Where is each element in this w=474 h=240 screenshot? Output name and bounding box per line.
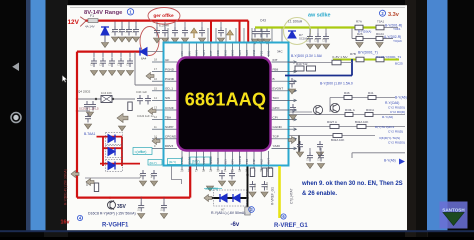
- svg-text:B-Y(D00 (1.8V 1.5A.0: B-Y(D00 (1.8V 1.5A.0: [320, 82, 353, 86]
- connector arrow AR7: [86, 179, 94, 186]
- wire 1.8V navy rail: [285, 59, 352, 76]
- capacitor C32: [85, 113, 91, 123]
- wire gray feedback loop: [135, 52, 163, 85]
- pin feed wire: [251, 28, 253, 42]
- wire left vertical 12V branch: [76, 52, 78, 198]
- pin top 7 GND: [224, 44, 226, 58]
- svg-text:SUPP: SUPP: [165, 125, 173, 129]
- ground G4261: [257, 39, 264, 44]
- capacitor C22: [109, 58, 115, 68]
- svg-text:C4U2 1uF 1u: C4U2 1uF 1u: [137, 114, 154, 118]
- pin left CPGND: [165, 138, 178, 140]
- svg-text:GGND: GGND: [273, 125, 283, 129]
- junction: [76, 110, 78, 112]
- svg-text:VIN: VIN: [180, 51, 184, 56]
- capacitor C4K2: [145, 95, 151, 105]
- resistor R14: [94, 183, 98, 192]
- svg-text:GF: GF: [165, 58, 169, 62]
- wire drop to second rail: [351, 29, 353, 39]
- svg-text:-6v: -6v: [231, 222, 240, 228]
- pin feed wire: [215, 28, 217, 42]
- svg-text:BC25: BC25: [395, 62, 403, 66]
- connector arrow AR6: [71, 171, 79, 178]
- svg-text:INT: INT: [273, 58, 278, 62]
- ground G21: [99, 71, 106, 76]
- connector arrow right mid: [289, 137, 296, 144]
- svg-text:R4L4D: R4L4D: [265, 182, 269, 190]
- pin top 5 BST: [210, 44, 212, 58]
- svg-text:C7(L)4TA7: C7(L)4TA7: [290, 188, 294, 204]
- svg-text:COUF: COUF: [165, 106, 174, 110]
- junction: [163, 196, 165, 198]
- svg-text:R30 A: R30 A: [366, 108, 374, 112]
- pin top 11 VIN2: [253, 44, 255, 58]
- node marker 6 (circled number): [281, 214, 286, 219]
- resistor R41: [368, 96, 376, 100]
- pin left GD_1: [165, 90, 178, 92]
- wire EN loop: [352, 153, 405, 158]
- resistor R327: [330, 125, 339, 129]
- svg-text:R-Y(D01-P) (15V 30mA): R-Y(D01-P) (15V 30mA): [64, 169, 68, 205]
- capacitor C30: [84, 101, 90, 111]
- resistor R26: [356, 36, 363, 40]
- ground G50: [306, 44, 313, 49]
- svg-text:VINN: VINN: [202, 157, 206, 164]
- node marker 1 (circled number): [127, 9, 133, 15]
- pin feed wire: [235, 28, 237, 42]
- svg-text:YA30: YA30: [273, 144, 281, 148]
- pin right YA30: [272, 147, 296, 149]
- wire right row GPO: [289, 114, 406, 116]
- pin bottom 3 BSTT: [195, 151, 197, 165]
- pin bottom 10 FB2: [246, 151, 248, 165]
- wire feed to pin area 1: [210, 21, 212, 42]
- capacitor C4255: [252, 28, 258, 38]
- node marker 3 (circled number): [249, 207, 255, 213]
- pin left SW: [165, 99, 178, 101]
- connector arrow AR8: [204, 195, 212, 202]
- pin feed wire: [207, 28, 209, 42]
- svg-text:CY2 R0(D5): CY2 R0(D5): [388, 140, 405, 144]
- svg-text:6A4: 6A4: [141, 57, 147, 61]
- capacitor C11: [119, 26, 125, 36]
- junction: [112, 98, 114, 100]
- ground G22: [108, 71, 115, 76]
- ground G81: [249, 192, 256, 197]
- pin left PGND: [165, 80, 178, 82]
- ground G34: [198, 38, 205, 43]
- wire pump ladder vertical B: [121, 137, 123, 166]
- svg-text:RC1B-Y(D001_T1: RC1B-Y(D001_T1: [376, 55, 401, 59]
- svg-text:SANTOSH: SANTOSH: [442, 208, 465, 213]
- mouse cursor: [62, 75, 67, 82]
- svg-text:C4u: C4u: [307, 156, 310, 161]
- svg-text:TGP: TGP: [273, 135, 279, 139]
- svg-text:CY2 R0(D): CY2 R0(D): [390, 110, 405, 114]
- capacitor C30: [154, 27, 160, 37]
- pin left GF: [165, 61, 178, 63]
- watermark logo square: [440, 202, 468, 229]
- capacitor C21: [100, 58, 106, 68]
- svg-text:B/Y(D001_T): B/Y(D001_T): [358, 50, 378, 54]
- wire D4 to pin: [147, 51, 163, 53]
- resistor R12: [376, 57, 384, 62]
- svg-text:3.3v: 3.3v: [388, 12, 400, 18]
- wire third rail 1.8V: [333, 59, 399, 61]
- capacitor C24: [289, 78, 295, 88]
- diode D21: [220, 194, 227, 202]
- right side dark zone: [405, 0, 428, 237]
- pin top 1 VIN: [181, 44, 183, 58]
- resistor R7B: [356, 57, 364, 62]
- svg-text:& 26 enable.: & 26 enable.: [302, 191, 337, 197]
- pin left DRV3: [165, 147, 178, 149]
- svg-text:8V-14V Range: 8V-14V Range: [84, 10, 123, 16]
- wire second horizontal branch: [77, 50, 146, 52]
- svg-text:CY2 R0(D): CY2 R0(D): [388, 129, 403, 133]
- svg-text:b_2B4R: b_2B4R: [159, 24, 169, 28]
- svg-text:L1 100uH: L1 100uH: [288, 20, 303, 24]
- svg-text:SW1: SW1: [202, 49, 206, 56]
- ground G4267: [263, 39, 270, 44]
- svg-text:TSP: TSP: [252, 158, 256, 164]
- capacitor C71: [161, 202, 167, 212]
- ground G23: [117, 71, 124, 76]
- pin bottom 8 CPI: [231, 151, 233, 165]
- pin right TGP: [272, 138, 296, 140]
- ground G60: [139, 181, 146, 186]
- svg-text:R7B: R7B: [350, 52, 356, 56]
- pin bottom 6 SW2: [217, 151, 219, 165]
- ground G46: [316, 152, 323, 157]
- page frame line: [70, 7, 405, 9]
- capacitor C90: [219, 170, 225, 180]
- transistor Q2: [330, 103, 339, 112]
- ferrite bead B4T: [332, 60, 341, 65]
- connector arrow AR9: [117, 114, 128, 123]
- svg-text:CPI: CPI: [231, 159, 235, 164]
- ground G71: [160, 214, 167, 219]
- pin right GGND: [272, 128, 296, 130]
- pin feed wire: [225, 28, 227, 42]
- svg-text:FB1: FB1: [259, 50, 263, 56]
- svg-text:when 9. ok then 30 no. EN, The: when 9. ok then 30 no. EN, Then 2S: [301, 181, 403, 187]
- pin left COUF: [165, 109, 178, 111]
- pin feed wire: [281, 28, 283, 42]
- pin bottom 1 PFAIL: [181, 151, 183, 165]
- svg-text:VL2: VL2: [259, 159, 263, 164]
- capacitor C60: [140, 170, 146, 180]
- capacitor C33: [182, 27, 188, 37]
- diode D12: [108, 162, 115, 170]
- svg-text:B-Y(A6): B-Y(A6): [395, 96, 407, 100]
- svg-text:TBA: TBA: [165, 115, 172, 119]
- pin bottom 12 VL2: [260, 151, 262, 165]
- transistor Q5 35V node: [108, 201, 116, 209]
- svg-text:-GD(P9): -GD(P9): [205, 187, 218, 191]
- wire right row 1: [289, 62, 353, 64]
- svg-text:R-Y(CA6): R-Y(CA6): [385, 101, 399, 105]
- IC U1 6861AAQ body: [178, 58, 271, 151]
- resistor R23: [245, 207, 250, 215]
- capacitor C46: [317, 141, 323, 151]
- connector arrow AR5: [152, 138, 160, 145]
- svg-text:R46: R46: [344, 91, 350, 95]
- resistor R40: [295, 66, 304, 71]
- svg-text:aw sdlke: aw sdlke: [308, 13, 330, 19]
- ground G32: [84, 124, 91, 129]
- wire DLY pin loop: [172, 167, 182, 185]
- svg-text:C3L: C3L: [315, 37, 318, 42]
- left blue stripe: [26, 0, 31, 231]
- ground G82: [261, 192, 268, 197]
- resistor R32B: [333, 134, 342, 138]
- svg-text:B32A 10K: B32A 10K: [331, 138, 344, 142]
- svg-text:T5A1: T5A1: [377, 20, 385, 24]
- svg-text:R-Y(A5.L) (-6V 50mA): R-Y(A5.L) (-6V 50mA): [211, 211, 245, 215]
- capacitor C45: [297, 141, 303, 151]
- pin feed wire: [243, 28, 245, 42]
- IC boundary box U1: [164, 43, 289, 166]
- dashed box pump stage 1: [106, 133, 123, 145]
- svg-text:D(Y)TA 0)4C1: D(Y)TA 0)4C1: [375, 125, 394, 129]
- diode D4: [140, 48, 147, 56]
- capacitor C12: [126, 26, 132, 36]
- svg-text:B-TAA1: B-TAA1: [84, 132, 95, 136]
- pin top 13 EN1: [267, 44, 269, 58]
- dashed box pump stage 3: [106, 160, 123, 172]
- capacitor C4261: [258, 28, 264, 38]
- wire second rail: [352, 38, 393, 40]
- ground G4255: [251, 39, 258, 44]
- svg-text:Q4 2SD2: Q4 2SD2: [78, 90, 91, 94]
- resistor RC24: [376, 36, 383, 40]
- resistor R21: [250, 168, 254, 177]
- svg-text:1C4 10K: 1C4 10K: [101, 91, 112, 95]
- pin feed wire: [167, 28, 169, 42]
- capacitor C13: [133, 26, 139, 36]
- svg-text:SW2: SW2: [245, 49, 249, 56]
- right blue stripe: [427, 0, 448, 231]
- svg-text:PGND: PGND: [165, 67, 175, 71]
- svg-text:C4K 1uF: C4K 1uF: [136, 90, 147, 94]
- ground G-R26: [356, 43, 363, 48]
- svg-text:(1.8V 1.5A/: (1.8V 1.5A/: [332, 55, 348, 59]
- pin right GPO: [272, 109, 296, 111]
- svg-text:R-VREF_G1: R-VREF_G1: [274, 223, 308, 229]
- capacitor C34: [199, 27, 205, 37]
- wire 12V rail top: [85, 19, 248, 21]
- svg-text:CLIM: CLIM: [187, 157, 191, 164]
- svg-text:GND: GND: [223, 50, 227, 56]
- ground GA1: [317, 164, 324, 169]
- svg-text:C3L: C3L: [323, 37, 326, 42]
- svg-text:VIN2: VIN2: [252, 49, 256, 56]
- ground G90: [218, 181, 225, 186]
- svg-text:Y0K1: Y0K1: [393, 27, 401, 31]
- junction: [109, 196, 111, 198]
- svg-text:FB8: FB8: [273, 67, 279, 71]
- transistor Q1: [313, 105, 322, 114]
- svg-text:EVGNT: EVGNT: [273, 87, 284, 91]
- pin left SUPP: [165, 128, 178, 130]
- svg-text:4u7: 4u7: [140, 173, 143, 178]
- wire bottom horizontal branch: [77, 197, 190, 199]
- capacitor C10: [112, 26, 118, 36]
- wire aux bottom-left: [85, 177, 140, 179]
- svg-text:R41: R41: [368, 91, 374, 95]
- svg-text:SW1: SW1: [195, 49, 199, 56]
- svg-text:B-Y(D0(A): B-Y(D0(A): [358, 29, 371, 33]
- capacitor C31: [162, 27, 168, 37]
- svg-text:=(offke): =(offke): [135, 150, 147, 154]
- svg-text:4u7: 4u7: [151, 173, 154, 178]
- svg-text:PGND: PGND: [165, 77, 175, 81]
- pin right TAO: [272, 99, 296, 101]
- svg-text:BST: BST: [209, 50, 213, 56]
- svg-text:B32A 10K: B32A 10K: [355, 120, 368, 124]
- ground G12: [125, 37, 132, 42]
- EN arrow: [399, 159, 405, 165]
- pin top 4 SW1: [203, 44, 205, 58]
- svg-text:PFAIL: PFAIL: [180, 156, 184, 164]
- teal box bLY corner: [148, 160, 162, 166]
- svg-text:35V: 35V: [117, 204, 127, 210]
- resistor R30L: [345, 113, 353, 117]
- ground G61: [150, 181, 157, 186]
- pin top 6 VDD: [217, 44, 219, 58]
- pin right CPI: [272, 119, 296, 121]
- annotation ellipse around D4: [140, 27, 159, 56]
- wire pump rung 2: [103, 147, 122, 149]
- svg-text:GND: GND: [231, 50, 235, 56]
- svg-text:C3: C3: [117, 62, 121, 66]
- pin top 2 VIN: [188, 44, 190, 58]
- svg-text:R-VGHF1: R-VGHF1: [102, 223, 129, 229]
- svg-text:OUT: OUT: [267, 158, 271, 164]
- resistor R30A: [365, 113, 373, 117]
- schematic white page: [67, 5, 407, 230]
- svg-text:CY2 R0(D5): CY2 R0(D5): [388, 106, 405, 110]
- svg-text:C2: C2: [108, 62, 112, 66]
- connector arrow AR3: [146, 73, 154, 80]
- ground G91: [228, 181, 235, 186]
- svg-text:(bl.Y): (bl.Y): [169, 160, 176, 164]
- pin right EVGNT: [272, 90, 296, 92]
- wire pump rung 1: [97, 136, 123, 138]
- diode D7: [288, 31, 296, 38]
- wire right row CPI: [289, 126, 406, 128]
- connector arrow AR4: [148, 108, 156, 115]
- capacitor C4K: [137, 95, 143, 105]
- svg-text:6861AAQ: 6861AAQ: [185, 89, 266, 109]
- home navigation circle icon: [11, 113, 21, 123]
- wire mid-left rail B: [77, 110, 90, 112]
- pin top 12 FB1: [260, 44, 262, 58]
- svg-text:(bLY): (bLY): [150, 161, 157, 165]
- ground G24: [126, 71, 133, 76]
- ground G45: [296, 152, 303, 157]
- svg-text:R-VREF_G1: R-VREF_G1: [271, 187, 275, 205]
- pin top 10 SW2: [246, 44, 248, 58]
- capacitor C61: [151, 170, 157, 180]
- wire 3.3V rail: [255, 26, 384, 28]
- ground G10: [111, 37, 118, 42]
- svg-text:R9T: R9T: [267, 166, 272, 170]
- annotation ellipse ger offke: [148, 8, 180, 25]
- resistor R32A: [357, 125, 366, 129]
- ground G24: [288, 89, 295, 94]
- svg-text:FB2: FB2: [245, 158, 249, 164]
- svg-text:GPO: GPO: [273, 106, 280, 110]
- ground G44: [289, 115, 296, 120]
- ground G11: [118, 37, 125, 42]
- diode D2: [101, 27, 109, 35]
- svg-text:C7D5: C7D5: [253, 183, 257, 190]
- svg-text:EN1: EN1: [267, 50, 271, 56]
- ground G20: [90, 71, 97, 76]
- svg-text:DLY: DLY: [223, 159, 227, 164]
- capacitor C51: [315, 33, 321, 43]
- capacitor C81: [250, 181, 256, 191]
- capacitor C20: [91, 58, 97, 68]
- diode D22: [233, 194, 240, 202]
- bottom navy line: [0, 230, 474, 232]
- pin top 3 SW1: [195, 44, 197, 58]
- teal box bl.Y 1: [168, 159, 182, 165]
- ground G13: [132, 37, 139, 42]
- capacitor CA0: [307, 152, 313, 162]
- svg-text:TAO: TAO: [273, 96, 280, 100]
- wire feed to pin area 3: [247, 21, 249, 43]
- svg-text:C43: C43: [260, 19, 266, 23]
- pin feed wire: [271, 28, 273, 42]
- capacitor C31: [90, 101, 96, 111]
- dashed box -6v diodes: [214, 190, 247, 206]
- svg-text:3(K)D(Y)-TA(S): 3(K)D(Y)-TA(S): [379, 136, 400, 140]
- ground G33: [181, 38, 188, 43]
- teal box bl.Y 2: [190, 157, 210, 164]
- ground G30: [153, 38, 160, 43]
- wire right row TAO: [330, 97, 395, 99]
- ground G52: [322, 44, 329, 49]
- wire R-VREF_G1 yellow: [278, 166, 281, 218]
- pin feed wire: [261, 28, 263, 42]
- svg-text:10u: 10u: [138, 206, 141, 211]
- svg-text:C1: C1: [99, 62, 103, 66]
- svg-text:C3L: C3L: [307, 37, 310, 42]
- capacitor C23: [118, 58, 124, 68]
- svg-text:R7A: R7A: [356, 20, 362, 24]
- capacitor C91: [229, 170, 235, 180]
- ground GA0: [306, 164, 313, 169]
- svg-text:CPGND: CPGND: [165, 135, 177, 139]
- capacitor C35: [218, 27, 224, 37]
- ground G33: [118, 126, 125, 131]
- svg-text:R327 A: R327 A: [327, 120, 337, 124]
- svg-text:C4: C4: [126, 62, 130, 66]
- wire feed to pin area 2: [239, 21, 241, 42]
- ground G30: [86, 112, 93, 117]
- connector arrow AR1: [191, 28, 198, 38]
- resistor R31: [128, 102, 132, 111]
- junction: [140, 196, 142, 198]
- svg-text:RC24: RC24: [376, 32, 384, 36]
- pin bottom 4 VINN: [203, 151, 205, 165]
- junction: [76, 98, 78, 100]
- wire black drop right: [298, 136, 300, 156]
- svg-text:B-Y(D00 (3.3V 1.5A/: B-Y(D00 (3.3V 1.5A/: [291, 54, 322, 58]
